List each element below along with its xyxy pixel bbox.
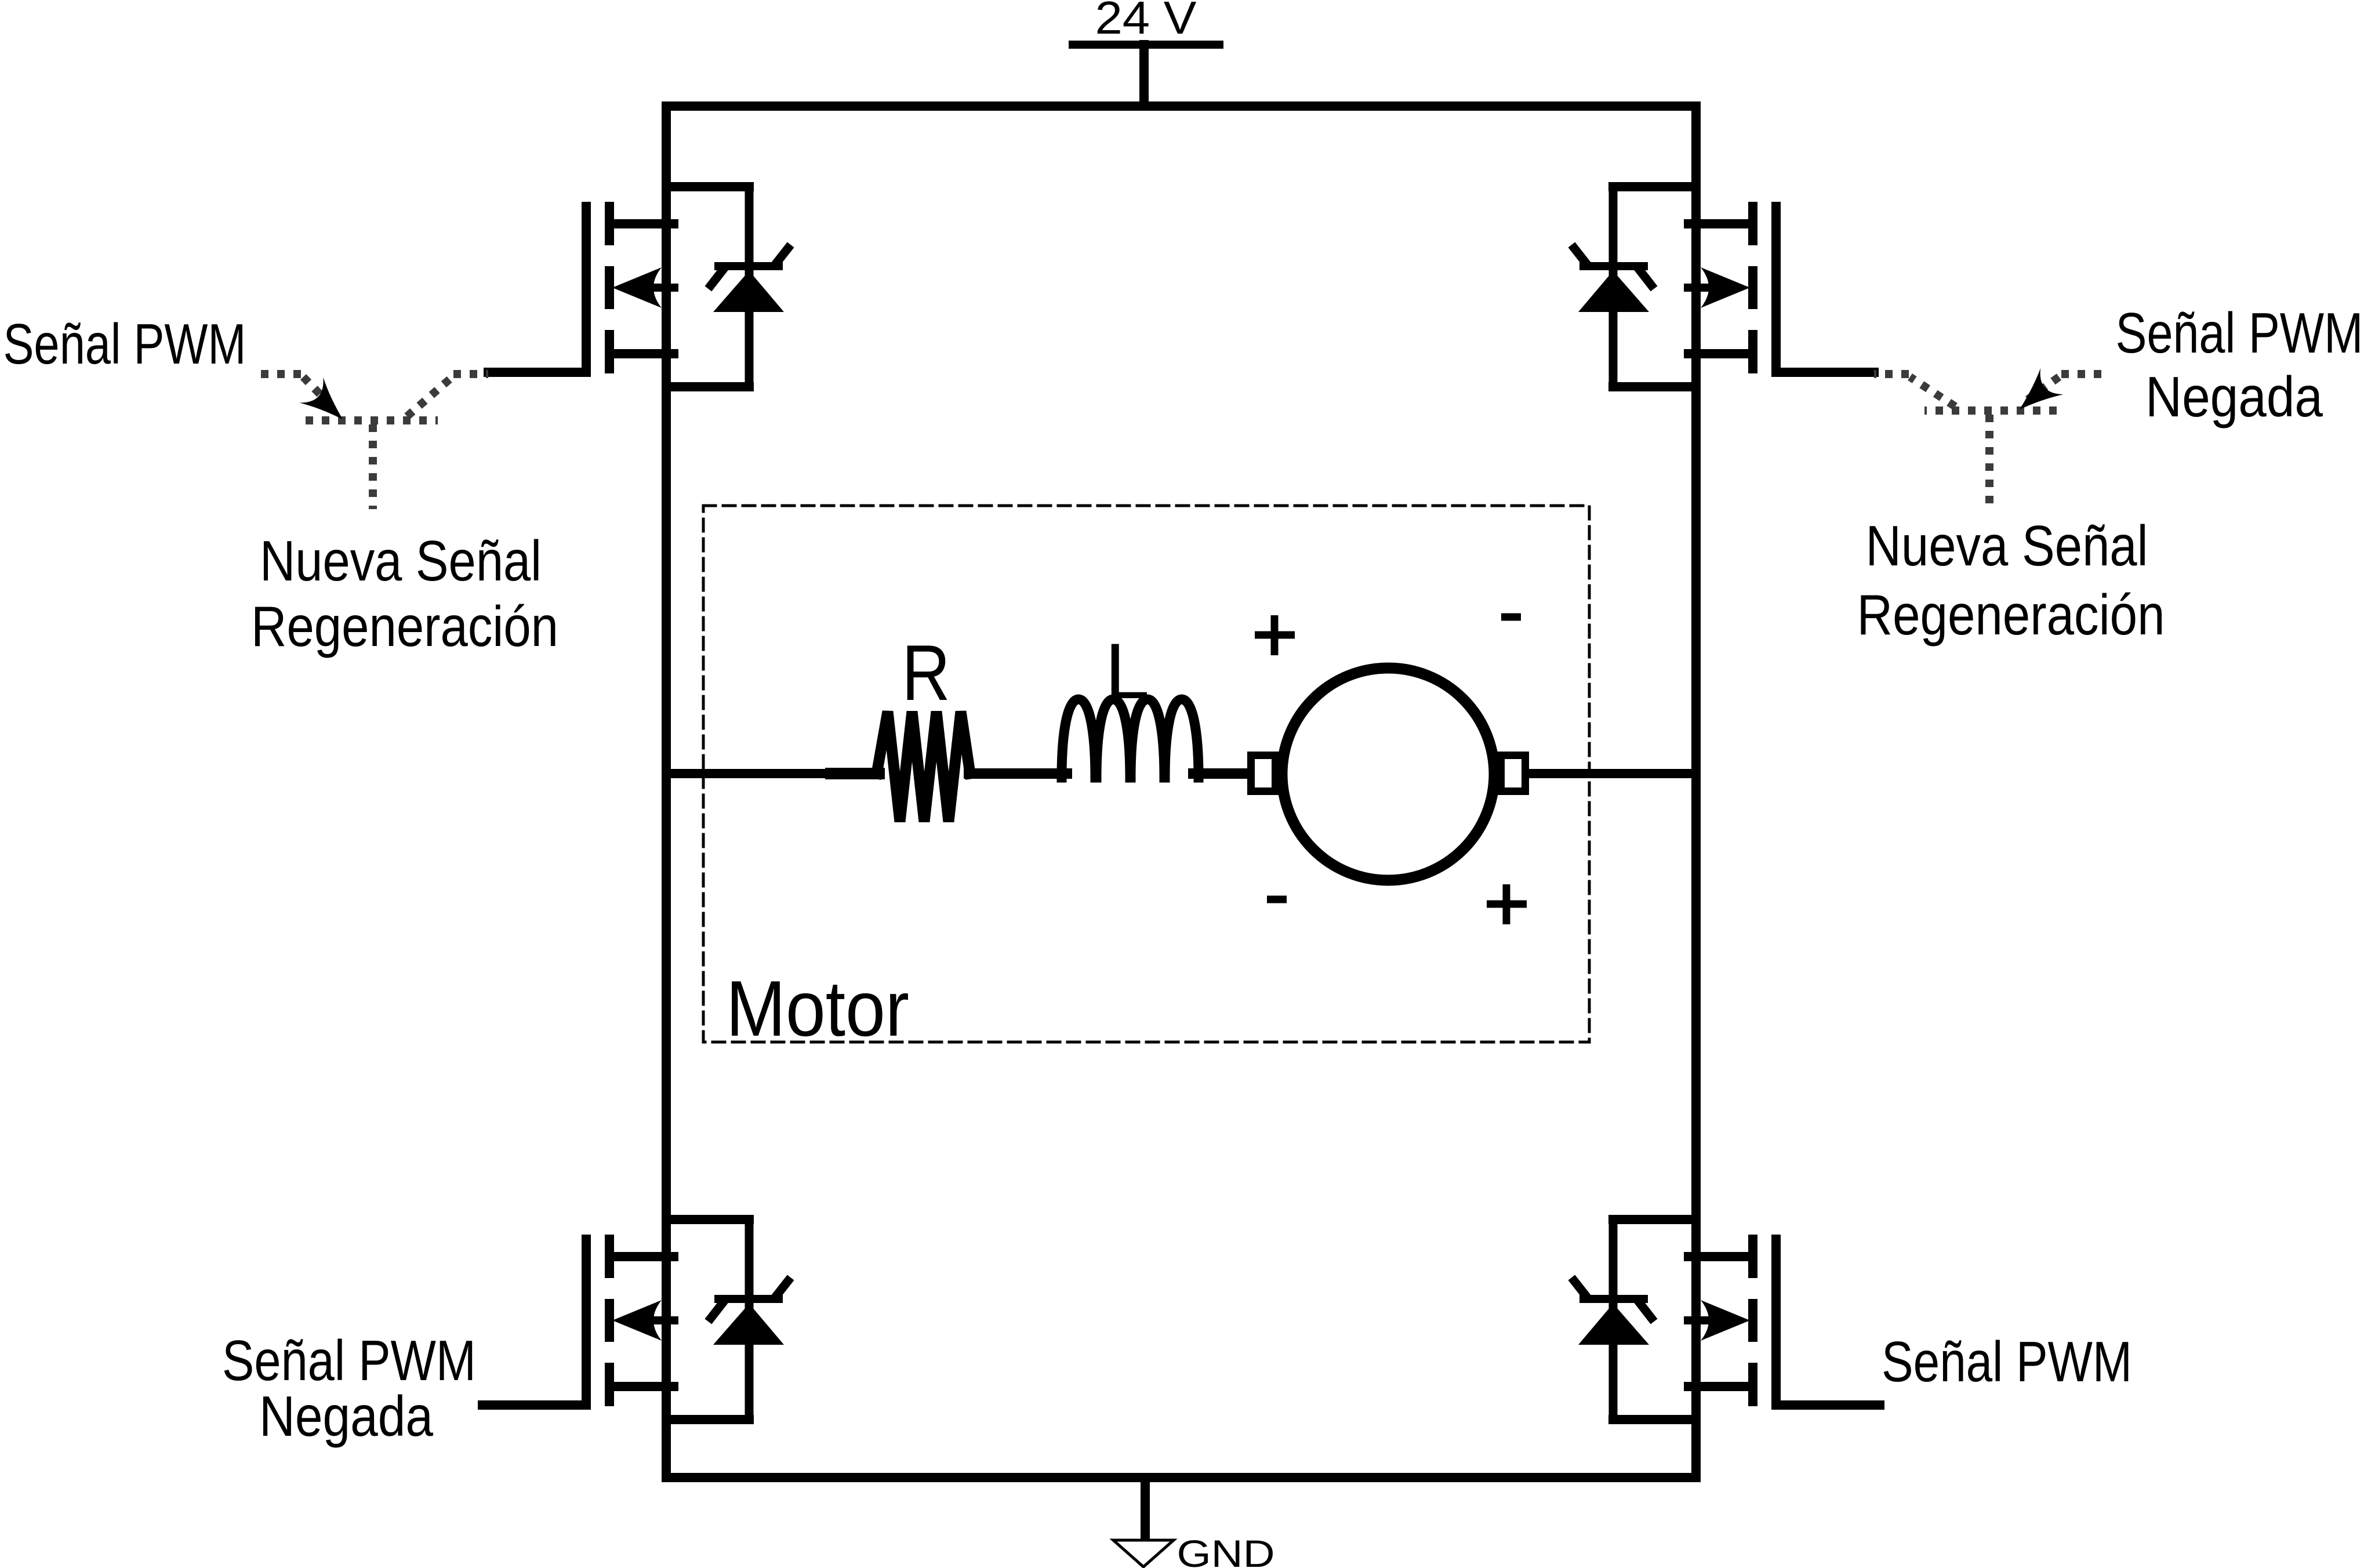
- polarity - (motor left, reverse): [1267, 896, 1287, 903]
- power symbol 24 V supply bar: [1073, 41, 1219, 49]
- svg-text:GND: GND: [1177, 1532, 1275, 1568]
- polarity - (motor right, forward): [1501, 614, 1521, 621]
- svg-text:R: R: [902, 629, 950, 717]
- wire source-to-diode of Q3 bottom-left low-side: [666, 1415, 749, 1424]
- polarity + (motor left, forward): [1255, 615, 1295, 655]
- wire drain-to-diode of Q1 top-left high-side: [666, 182, 749, 191]
- svg-text:Señal PWM: Señal PWM: [222, 1329, 476, 1392]
- wire source-to-diode of Q2 top-right high-side: [1613, 382, 1696, 391]
- body diode (zener) of Q2 top-right high-side: [1574, 187, 1651, 387]
- wire gate lead of Q1 top-left high-side: [488, 368, 586, 377]
- svg-text:Motor: Motor: [726, 964, 909, 1052]
- arrowhead on right dotted path: [2008, 368, 2063, 423]
- wire GND stub: [1141, 1478, 1150, 1540]
- body diode (zener) of Q4 bottom-right low-side: [1574, 1219, 1651, 1420]
- wire gate lead of Q4 bottom-right low-side: [1776, 1400, 1874, 1410]
- ground symbol: [1113, 1540, 1174, 1567]
- motor terminal brush left: [1251, 756, 1276, 792]
- wire motor node left (left half-bridge output): [666, 769, 877, 778]
- transistor Q1 top-left high-side (N-MOSFET): [586, 202, 674, 373]
- svg-text:Señal PWM: Señal PWM: [3, 312, 246, 376]
- svg-text:Negada: Negada: [259, 1384, 433, 1448]
- wire gate lead of Q3 bottom-left low-side: [488, 1400, 586, 1410]
- wire gate lead of Q2 top-right high-side: [1776, 368, 1874, 377]
- transistor Q3 bottom-left low-side (N-MOSFET): [586, 1235, 674, 1406]
- svg-text:Señal PWM: Señal PWM: [1882, 1330, 2132, 1393]
- polarity + (motor right, reverse): [1487, 884, 1527, 924]
- label L value: [1105, 627, 1149, 715]
- wire supply rail loop (top 24V rail, left leg, bottom GND rail, right leg): [666, 106, 1696, 1478]
- wire resistor lead thick: [831, 768, 879, 779]
- arrowhead on left dotted path: [299, 378, 354, 432]
- wire dotted signal path (left, Señal PWM to gate Q1): [261, 374, 488, 509]
- body diode (zener) of Q3 bottom-left low-side: [711, 1219, 788, 1420]
- motor terminal brush right: [1501, 756, 1526, 792]
- wire dotted signal path (right, Señal PWM Negada to gate Q2): [1874, 374, 2101, 509]
- svg-text:Nueva Señal: Nueva Señal: [1866, 514, 2148, 578]
- wire gate lead extension Q3 (to Señal PWM Negada label): [482, 1400, 586, 1410]
- label R value: [902, 629, 950, 717]
- resistor R (motor winding resistance): [877, 712, 970, 822]
- svg-text:Señal PWM: Señal PWM: [2116, 301, 2363, 365]
- transistor Q4 bottom-right low-side (N-MOSFET): [1688, 1235, 1776, 1406]
- wire 24 V stub: [1139, 45, 1149, 106]
- wire source-to-diode of Q1 top-left high-side: [666, 382, 749, 391]
- svg-text:24 V: 24 V: [1095, 0, 1197, 43]
- wire drain-to-diode of Q3 bottom-left low-side: [666, 1215, 749, 1224]
- inductor L (motor winding inductance): [1062, 699, 1199, 778]
- svg-text:Nueva Señal: Nueva Señal: [260, 529, 542, 593]
- motor model dashed boundary box: [703, 506, 1589, 1042]
- wire motor node right (right half-bridge output): [1527, 769, 1696, 778]
- wire gate lead extension Q4 (to Señal PWM label): [1776, 1400, 1880, 1410]
- svg-text:Negada: Negada: [2145, 365, 2323, 429]
- svg-text:L: L: [1105, 627, 1149, 715]
- svg-text:Regeneración: Regeneración: [1857, 583, 2165, 647]
- motor M armature circle: [1282, 668, 1494, 880]
- wire inductor-to-motor: [1193, 768, 1250, 779]
- body diode (zener) of Q1 top-left high-side: [711, 187, 788, 387]
- transistor Q2 top-right high-side (N-MOSFET): [1688, 202, 1776, 373]
- wire resistor-to-inductor: [969, 768, 1067, 779]
- wire drain-to-diode of Q2 top-right high-side: [1613, 182, 1696, 191]
- svg-text:Regeneración: Regeneración: [251, 594, 558, 658]
- wire drain-to-diode of Q4 bottom-right low-side: [1613, 1215, 1696, 1224]
- wire source-to-diode of Q4 bottom-right low-side: [1613, 1415, 1696, 1424]
